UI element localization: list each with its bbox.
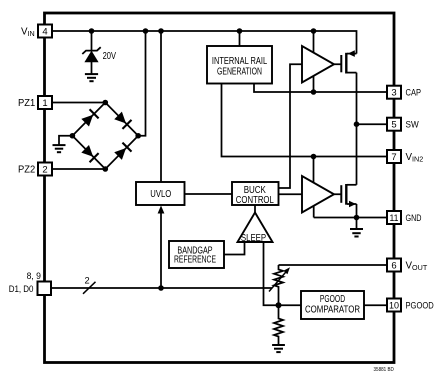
block UVLO	[136, 182, 185, 205]
wire feedback to UVLO	[160, 210, 162, 288]
svg-text:PGOOD: PGOOD	[320, 294, 345, 305]
op-amp upper gate driver	[302, 46, 334, 83]
svg-text:SW: SW	[406, 120, 419, 131]
ground (divider)	[272, 345, 285, 352]
wire sleep to feedback node	[264, 242, 279, 305]
svg-text:PZ2: PZ2	[18, 165, 35, 176]
wire bandgap to sleep	[224, 242, 245, 255]
bus slash 2	[83, 282, 96, 294]
svg-text:INTERNAL RAIL: INTERNAL RAIL	[212, 56, 268, 67]
svg-text:REFERENCE: REFERENCE	[174, 255, 216, 266]
bridge diode lower-right	[114, 143, 132, 161]
pin 1	[38, 96, 52, 109]
junction dot SW	[354, 121, 360, 127]
wire VIN rail	[52, 31, 357, 54]
ground (Q2 source)	[350, 218, 363, 237]
svg-text:20V: 20V	[103, 51, 117, 62]
wire CAP net	[254, 84, 387, 93]
arrow feedback into UVLO	[158, 206, 165, 214]
svg-text:11: 11	[390, 213, 399, 224]
pin 11	[387, 211, 401, 224]
pin 4	[38, 25, 52, 38]
wire GND net	[314, 217, 387, 219]
wire D1 D0 bus	[51, 287, 272, 289]
svg-text:CONTROL: CONTROL	[236, 195, 274, 206]
junction dots bridge vertices	[70, 100, 141, 172]
transistor Q2 NMOS	[334, 184, 357, 218]
wire buck control to sleep	[254, 205, 256, 213]
wire Q1 drain to SW and Q2 drain	[356, 73, 358, 185]
wire bridge left vertex to ground	[59, 136, 72, 145]
svg-text:PGOOD: PGOOD	[406, 300, 434, 311]
svg-text:COMPARATOR: COMPARATOR	[305, 304, 360, 315]
wire rail to internal rail generation	[239, 31, 241, 46]
wire lower amp negative supply to GND	[313, 202, 315, 218]
block internal rail generation	[207, 46, 272, 84]
op-amp lower gate driver	[302, 176, 334, 213]
wire VIN2 to lower amp supply	[313, 157, 315, 187]
comparator SLEEP	[238, 213, 273, 243]
svg-text:GENERATION: GENERATION	[217, 66, 262, 77]
transistor Q1 PMOS	[334, 50, 357, 73]
junction dot VIN2 supply	[311, 154, 317, 160]
wire VIN2 net	[222, 84, 388, 157]
junction dots VIN rail	[89, 28, 317, 34]
junction dot feedback UVLO	[158, 285, 164, 291]
svg-text:5: 5	[391, 120, 396, 131]
wire feedback node to pgood comparator	[279, 304, 302, 306]
bridge diode lower-left	[81, 144, 99, 162]
svg-text:2: 2	[85, 275, 90, 285]
block buck control	[232, 182, 279, 205]
svg-text:GND: GND	[406, 213, 422, 224]
pin 7	[387, 150, 401, 163]
svg-text:10: 10	[389, 300, 399, 311]
svg-text:2: 2	[42, 164, 47, 175]
wire SW net	[357, 123, 388, 125]
pin 8 9 D1 D0	[38, 282, 52, 296]
svg-text:PZ1: PZ1	[18, 98, 35, 109]
pin 5	[387, 118, 401, 131]
junction dot CAP supply	[311, 89, 317, 95]
zener D5 20V	[82, 47, 100, 74]
svg-text:1: 1	[42, 98, 47, 109]
svg-text:CAP: CAP	[406, 88, 422, 99]
block bandgap reference	[169, 241, 224, 268]
svg-text:35881 BD: 35881 BD	[374, 367, 395, 373]
resistor R1 programmable divider top (pot)	[274, 265, 283, 305]
wire bridge output to rail	[138, 31, 145, 136]
pin 6	[387, 259, 401, 272]
bridge diode upper-right	[114, 111, 132, 129]
wire PZ2 to bridge bottom	[52, 168, 105, 170]
wire rail to UVLO input	[160, 31, 162, 182]
svg-text:8, 9: 8, 9	[27, 271, 41, 281]
svg-text:D1, D0: D1, D0	[9, 284, 34, 294]
wire rail to upper amp positive supply	[313, 31, 315, 56]
svg-text:3: 3	[391, 88, 396, 99]
pin 10	[387, 299, 401, 312]
wire zener branch	[91, 31, 93, 50]
arrow pot wiper	[269, 267, 290, 291]
wire PZ1 to bridge top	[52, 102, 105, 104]
ground (zener)	[85, 74, 98, 81]
svg-text:7: 7	[391, 152, 396, 163]
junction dot GND	[354, 215, 360, 221]
svg-text:SLEEP: SLEEP	[241, 233, 267, 244]
wire pgood comparator output	[364, 304, 387, 306]
svg-text:4: 4	[42, 26, 47, 37]
wire UVLO to buck control	[185, 193, 233, 195]
border outer box	[45, 13, 395, 363]
block pgood comparator	[301, 291, 364, 319]
resistor R2 divider bottom	[274, 305, 283, 345]
wire VOUT net	[279, 264, 388, 266]
wire upper amp negative supply to CAP	[313, 73, 315, 92]
pin 3	[387, 86, 401, 99]
svg-text:UVLO: UVLO	[150, 189, 171, 200]
svg-text:6: 6	[391, 260, 396, 271]
ground (bridge)	[53, 145, 66, 152]
bridge diode upper-left	[81, 109, 99, 127]
junction dot divider tap	[276, 302, 282, 308]
diode bridge outline	[72, 103, 138, 170]
wire buck control to lower amp input	[279, 193, 303, 195]
pin 2	[38, 163, 52, 176]
wire buck control to upper amp input	[279, 64, 303, 188]
